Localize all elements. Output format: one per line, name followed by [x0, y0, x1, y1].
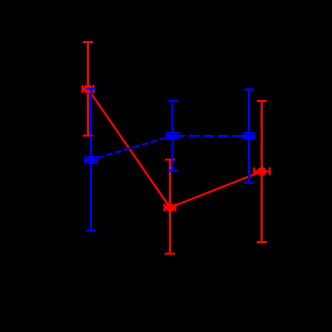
red x-error right cap R1	[93, 85, 95, 93]
red y-error top cap R3	[257, 100, 267, 102]
red y-error bottom cap R2	[165, 253, 175, 255]
red x-error right cap R2	[175, 204, 177, 212]
blue y-error bar point B2	[172, 101, 174, 171]
red x-error left cap R3	[253, 167, 255, 175]
blue x-error right cap B2	[177, 132, 179, 140]
blue y-error bottom cap B2	[167, 170, 177, 172]
red y-error bottom cap R3	[257, 241, 267, 243]
red y-error top cap R2	[165, 159, 175, 161]
blue series B (dashed line, open square markers, x/y error bars)	[85, 89, 254, 231]
blue y-error top cap B3	[244, 89, 254, 91]
blue x-error right cap B1	[96, 156, 98, 164]
blue x-error bar B2	[167, 135, 179, 137]
red y-error bar point R1	[87, 42, 89, 136]
blue y-error top cap B2	[167, 100, 177, 102]
blue y-error top cap B1	[86, 88, 96, 90]
blue y-error bottom cap B1	[86, 230, 96, 232]
red x-error right cap R3	[269, 167, 271, 175]
blue marker B1 (open square)	[88, 157, 94, 163]
blue x-error bar B3	[243, 135, 254, 137]
red connecting line R1-R2	[88, 89, 170, 208]
red series R (solid line, filled circle markers, x/y error bars)	[83, 42, 270, 254]
blue x-error right cap B3	[253, 132, 255, 140]
red x-error left cap R1	[82, 85, 84, 93]
red connecting line R2-R3	[170, 171, 262, 207]
red marker R1 (filled circle)	[84, 84, 93, 93]
blue x-error left cap B1	[84, 156, 86, 164]
red y-error bottom cap R1	[83, 135, 93, 137]
blue y-error bar point B3	[248, 90, 250, 183]
red marker R2 (filled circle)	[166, 203, 175, 212]
blue dashed connecting line B1-B2	[91, 136, 173, 160]
blue y-error bottom cap B3	[244, 182, 254, 184]
blue x-error left cap B2	[166, 132, 168, 140]
red marker R3 (filled circle)	[257, 167, 266, 176]
red y-error bar point R2	[169, 160, 171, 254]
red x-error left cap R2	[164, 204, 166, 212]
blue x-error bar B1	[85, 159, 96, 161]
red x-error bar R1	[83, 88, 94, 90]
blue marker B3 (open square)	[246, 133, 252, 139]
red x-error bar R2	[165, 207, 176, 209]
blue x-error left cap B3	[242, 132, 244, 140]
blue dashed connecting line B2-B3	[173, 135, 250, 137]
red y-error top cap R1	[83, 41, 93, 43]
red y-error bar point R3	[261, 101, 263, 242]
blue y-error bar point B1	[90, 89, 92, 231]
red x-error bar R3	[254, 170, 270, 172]
blue marker B2 (open square)	[170, 133, 176, 139]
